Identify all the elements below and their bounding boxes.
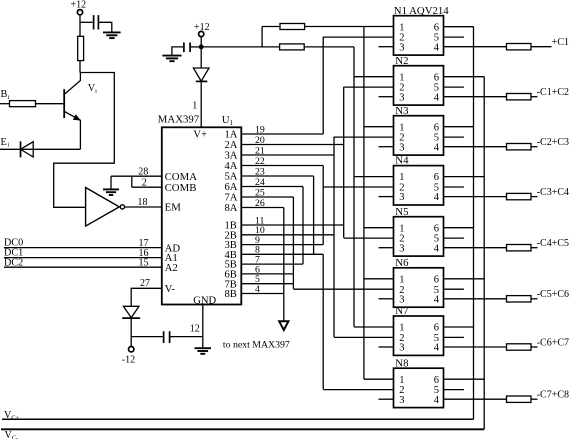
svg-text:1: 1 xyxy=(192,100,197,111)
opto relay N2 (AQV214) xyxy=(394,66,444,105)
svg-text:6: 6 xyxy=(434,122,439,133)
wire N1 pin 2 xyxy=(323,36,393,38)
wire pin 20 (2A) xyxy=(241,144,343,146)
svg-text:A2: A2 xyxy=(165,262,178,274)
wire pin 19 (1A) xyxy=(241,133,323,135)
svg-text:-C7+C8: -C7+C8 xyxy=(537,390,569,401)
capacitor C3 (V+) xyxy=(184,43,190,53)
svg-text:3: 3 xyxy=(399,192,404,203)
svg-text:4: 4 xyxy=(434,243,440,254)
wire N5 pin 2 xyxy=(344,237,394,239)
wire output -C7+C8 xyxy=(531,398,538,400)
ground (COMA/COMB) xyxy=(110,176,112,189)
wire C2 to GND stem xyxy=(170,336,202,338)
wire odd-anode bus (N1 pin1 T to N3/N5/N6/N8 pin1) xyxy=(363,27,365,380)
svg-text:V-: V- xyxy=(165,283,176,295)
wire even-anode bus (N2/N4 pin1 to N7 pin1) xyxy=(353,47,355,327)
resistor R2 (base) xyxy=(10,101,36,107)
svg-text:3: 3 xyxy=(399,92,404,103)
svg-text:E: E xyxy=(1,137,7,148)
opto relay N8 (AQV214) xyxy=(394,368,444,407)
wire pin 25 (7A) xyxy=(241,196,293,198)
wire N7 pin 1 xyxy=(354,326,394,328)
wire output -C1+C2 xyxy=(531,96,538,98)
wire N5 pin 4 output xyxy=(444,247,507,249)
svg-text:3: 3 xyxy=(399,294,404,305)
svg-text:5A: 5A xyxy=(225,172,238,183)
svg-text:N1 AQV214: N1 AQV214 xyxy=(394,5,449,17)
power terminal +12 (V+ feed) xyxy=(199,31,204,36)
wire pin 9 (3B) xyxy=(241,244,323,246)
rail VC- xyxy=(1,428,484,430)
opto relay N4 (AQV214) xyxy=(394,166,444,205)
wire bus 4A to 3B xyxy=(322,166,324,245)
svg-text:6: 6 xyxy=(434,22,439,33)
svg-text:N7: N7 xyxy=(395,305,409,317)
wire N8 pin 3 stub xyxy=(379,398,394,400)
svg-text:-C4+C5: -C4+C5 xyxy=(537,238,569,249)
wire N4 pin 3 stub xyxy=(379,196,394,198)
wire GND stem xyxy=(202,305,204,348)
wire N7 pin 3 stub xyxy=(379,346,394,348)
svg-text:3: 3 xyxy=(399,142,404,153)
svg-text:-C2+C3: -C2+C3 xyxy=(537,137,569,148)
svg-text:6A: 6A xyxy=(225,182,238,193)
wire bus 6A to 5B xyxy=(302,187,304,265)
resistor R6 (output -C1+C2) xyxy=(507,94,532,100)
wire output +C1 xyxy=(531,46,552,48)
svg-text:N5: N5 xyxy=(395,206,408,218)
wire bus to next MAX397 (8A / 8B) xyxy=(283,208,285,321)
wire N8 pin 2 xyxy=(323,389,393,391)
svg-text:4: 4 xyxy=(434,343,440,354)
svg-text:+C1: +C1 xyxy=(552,37,569,48)
wire pin 7 (5B) xyxy=(241,263,303,265)
wire V- down xyxy=(131,288,162,306)
ground (top left) xyxy=(103,31,121,33)
svg-text:EM: EM xyxy=(165,202,182,214)
svg-text:4: 4 xyxy=(434,294,440,305)
wire R2 to base xyxy=(36,103,65,105)
wire bus 4B to N8 pin2 xyxy=(322,254,324,389)
wire pin 5 (7B) xyxy=(241,283,293,285)
svg-text:1A: 1A xyxy=(225,130,238,141)
svg-text:1: 1 xyxy=(399,223,404,234)
wire even pin6 bus to rail VC- xyxy=(483,77,485,430)
wire bus N1 pin2 to 1A xyxy=(322,37,324,134)
wire N6 pin 2 xyxy=(293,288,393,290)
wire output -C4+C5 xyxy=(531,247,538,249)
wire VD2 to V+ pin xyxy=(200,81,202,127)
svg-text:N2: N2 xyxy=(395,55,408,67)
wire bus 5A to 4B xyxy=(313,176,315,254)
svg-text:1: 1 xyxy=(399,22,404,33)
transistor V1 (NPN) xyxy=(63,89,65,118)
svg-text:4: 4 xyxy=(434,192,440,203)
resistor R12 (output -C7+C8) xyxy=(507,396,532,402)
svg-text:28: 28 xyxy=(138,166,148,177)
wire N3 pin 4 output xyxy=(444,146,507,148)
wire N1 pin 3 stub xyxy=(379,46,394,48)
svg-text:3: 3 xyxy=(399,243,404,254)
resistor R7 (output -C2+C3) xyxy=(507,144,532,150)
svg-text:8A: 8A xyxy=(225,203,238,214)
wire N1 pin 4 output xyxy=(444,46,507,48)
wire N5 pin 6 xyxy=(444,227,474,229)
svg-text:1: 1 xyxy=(399,274,404,285)
wire N1 pin 6 xyxy=(444,26,474,28)
svg-text:N6: N6 xyxy=(395,257,409,269)
wire N8 pin 6 xyxy=(444,378,485,380)
power terminal +12 (top left) xyxy=(77,10,82,15)
resistor R1 (collector load) xyxy=(78,36,84,60)
opto relay N7 (AQV214) xyxy=(394,316,444,355)
svg-text:i: i xyxy=(8,94,10,101)
wire N4 pin 2 xyxy=(323,186,393,188)
wire N5 pin 5 stub xyxy=(444,237,464,239)
wire N7 pin 4 output xyxy=(444,346,507,348)
wire N3 pin 1 xyxy=(364,126,394,128)
svg-text:V+: V+ xyxy=(193,128,207,140)
svg-text:N4: N4 xyxy=(395,155,409,167)
arrow to next MAX397 xyxy=(279,321,288,330)
wire N1 pin 5 stub xyxy=(444,36,464,38)
resistor R5 (output +C1) xyxy=(507,44,532,50)
wire N2 pin 2 xyxy=(344,86,394,88)
opto relay N3 (AQV214) xyxy=(394,116,444,155)
MAX397 U1 chip body xyxy=(162,127,242,304)
svg-text:1: 1 xyxy=(399,122,404,133)
wire N2 pin 1 xyxy=(354,76,394,78)
wire +12 stem xyxy=(79,15,81,37)
wire DC2 to A2 xyxy=(4,266,162,268)
wire N2 pin 5 stub xyxy=(444,86,464,88)
resistor R8 (output -C3+C4) xyxy=(507,193,532,199)
wire N6 pin 4 output xyxy=(444,298,507,300)
wire output -C5+C6 xyxy=(531,298,538,300)
svg-text:6: 6 xyxy=(434,274,439,285)
svg-text:COMB: COMB xyxy=(165,182,197,194)
svg-text:1: 1 xyxy=(399,375,404,386)
wire N3 pin 3 stub xyxy=(379,146,394,148)
resistor R4 (even anode feed) xyxy=(280,44,305,50)
resistor R3 (odd anode feed) xyxy=(280,24,305,30)
wire N8 pin 1 xyxy=(364,378,394,380)
wire N5 pin 3 stub xyxy=(379,247,394,249)
wire N4 pin 1 xyxy=(354,176,394,178)
wire V+ stem xyxy=(200,37,202,68)
resistor R10 (output -C5+C6) xyxy=(507,296,532,302)
wire DC0 to AD xyxy=(4,247,162,249)
wire +12 to capacitor xyxy=(80,21,93,23)
wire N2 pin 4 output xyxy=(444,96,507,98)
capacitor C2 (V-) xyxy=(164,331,170,343)
svg-text:+12: +12 xyxy=(71,0,87,11)
svg-text:4A: 4A xyxy=(225,161,238,172)
wire N7 pin 5 stub xyxy=(444,336,464,338)
wire output -C6+C7 xyxy=(531,346,538,348)
wire pin 23 (5A) xyxy=(241,175,313,177)
svg-text:6: 6 xyxy=(434,375,439,386)
svg-text:-12: -12 xyxy=(122,355,135,366)
svg-text:B: B xyxy=(1,89,8,100)
svg-text:6: 6 xyxy=(434,223,439,234)
svg-text:4: 4 xyxy=(434,92,440,103)
wire COMB link xyxy=(132,176,162,187)
diode VD1 xyxy=(20,141,22,157)
capacitor C1 xyxy=(94,15,99,29)
svg-text:6: 6 xyxy=(434,323,439,334)
resistor R9 (output -C4+C5) xyxy=(507,245,532,251)
wire N8 pin 4 output xyxy=(444,398,507,400)
svg-text:3: 3 xyxy=(399,395,404,406)
svg-text:to next MAX397: to next MAX397 xyxy=(223,339,290,350)
opto relay N6 (AQV214) xyxy=(394,268,444,307)
wire +12 node to R4 xyxy=(203,46,279,48)
wire N4 pin 6 xyxy=(444,176,485,178)
wire N7 pin 6 xyxy=(444,326,474,328)
svg-text:7A: 7A xyxy=(225,193,238,204)
wire N2 pin 3 stub xyxy=(379,96,394,98)
wire bus N2 pin2 / 2A / 1B / N5 pin2 xyxy=(343,87,345,238)
wire COMA xyxy=(111,175,162,177)
svg-text:2A: 2A xyxy=(225,140,238,151)
wire output -C2+C3 xyxy=(531,146,538,148)
svg-text:3: 3 xyxy=(399,343,404,354)
opto relay N1 (AQV214) xyxy=(394,16,444,55)
diode VD3 (V- clamp) xyxy=(123,306,139,317)
inverter U2 xyxy=(86,188,120,227)
svg-text:12: 12 xyxy=(190,324,200,335)
wire pin 21 (3A) xyxy=(241,154,334,156)
wire R1 to collector node xyxy=(79,61,81,73)
wire riser to R3 xyxy=(262,27,280,47)
svg-text:GND: GND xyxy=(193,296,216,307)
wire VD3 to capacitor xyxy=(131,318,162,337)
svg-text:1: 1 xyxy=(399,172,404,183)
wire N3 pin 6 xyxy=(444,126,474,128)
svg-text:3A: 3A xyxy=(225,151,238,162)
svg-text:MAX397: MAX397 xyxy=(158,114,200,126)
svg-text:3: 3 xyxy=(399,42,404,53)
svg-text:2: 2 xyxy=(142,178,147,189)
svg-text:N3: N3 xyxy=(395,105,408,117)
svg-text:N8: N8 xyxy=(395,357,408,369)
svg-text:-C6+C7: -C6+C7 xyxy=(537,337,569,348)
wire junction to C3 xyxy=(191,46,199,48)
svg-text:-C1+C2: -C1+C2 xyxy=(537,87,569,98)
svg-text:8B: 8B xyxy=(225,289,237,300)
wire N2 pin 6 xyxy=(444,76,485,78)
svg-text:4: 4 xyxy=(434,142,440,153)
svg-text:18: 18 xyxy=(138,197,148,208)
svg-text:i: i xyxy=(8,142,10,149)
wire N6 pin 6 xyxy=(444,278,485,280)
svg-text:-C5+C6: -C5+C6 xyxy=(537,289,569,300)
svg-text:+12: +12 xyxy=(194,22,210,33)
wire R4 to even-anode bus xyxy=(304,46,354,48)
wire pin 10 (2B) xyxy=(241,234,334,236)
svg-text:15: 15 xyxy=(139,258,149,269)
wire N3 pin 5 stub xyxy=(444,136,464,138)
svg-text:1: 1 xyxy=(399,323,404,334)
wire pin 6 (6B) xyxy=(241,273,293,275)
wire capacitor to ground xyxy=(99,22,112,31)
power terminal -12 xyxy=(130,337,132,347)
wire R3 to N1 pin1 xyxy=(305,26,394,28)
wire output -C3+C4 xyxy=(531,196,538,198)
wire pin 26 (8A) xyxy=(241,207,283,209)
wire E line xyxy=(0,148,80,150)
wire N7 pin 2 xyxy=(334,336,394,338)
wire DC1 to A1 xyxy=(4,257,162,259)
wire N5 pin 1 xyxy=(364,227,394,229)
wire pin 22 (4A) xyxy=(241,165,323,167)
wire pin 24 (6A) xyxy=(241,186,303,188)
wire N4 pin 5 stub xyxy=(444,186,464,188)
wire bus 7A / 6B / 7B / N6 pin2 xyxy=(292,197,294,289)
ground (GND pin) xyxy=(195,347,212,349)
wire odd pin6 bus to rail VC+ xyxy=(473,27,475,420)
wire pin 8 (4B) xyxy=(241,253,323,255)
wire pin 11 (1B) xyxy=(241,224,343,226)
svg-text:27: 27 xyxy=(140,278,150,289)
opto relay N5 (AQV214) xyxy=(394,217,444,256)
svg-text:-C3+C4: -C3+C4 xyxy=(537,187,569,198)
svg-text:4: 4 xyxy=(434,42,440,53)
wire N6 pin 1 xyxy=(364,278,394,280)
wire N3 pin 2 xyxy=(334,136,394,138)
wire N4 pin 4 output xyxy=(444,196,507,198)
wire bus N3 pin2 / 3A / 2B / N7 pin2 xyxy=(333,137,335,337)
rail VC+ xyxy=(2,418,474,420)
wire N6 pin 3 stub xyxy=(379,298,394,300)
wire N6 pin 5 stub xyxy=(444,288,464,290)
wire C3 left to ground xyxy=(172,47,183,55)
svg-text:6: 6 xyxy=(434,172,439,183)
diode VD2 (V+) xyxy=(193,68,209,81)
svg-text:4: 4 xyxy=(434,395,440,406)
wire pin 4 (8B) xyxy=(241,293,283,295)
wire N8 pin 5 stub xyxy=(444,389,464,391)
ground (V+ cap) xyxy=(162,55,181,57)
wire input B stub xyxy=(0,103,10,105)
svg-text:6: 6 xyxy=(434,72,439,83)
node junction dot xyxy=(199,45,203,49)
svg-text:1: 1 xyxy=(399,72,404,83)
wire inverter output to EM xyxy=(125,206,162,208)
resistor R11 (output -C6+C7) xyxy=(507,344,532,350)
wire feedback collector to inverter input xyxy=(54,73,115,208)
